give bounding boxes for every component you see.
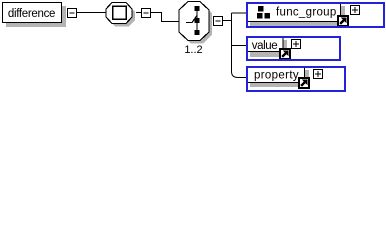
- plus box property: [314, 70, 323, 79]
- compositor octagon 1: [106, 3, 132, 24]
- collapse box B (minus): [142, 9, 151, 18]
- wire from collapse box C to trunk: [223, 20, 232, 22]
- wire from collapse box A to sequence octagon: [77, 12, 107, 14]
- compositor octagon 1 shadow: [109, 6, 135, 27]
- plus box func_group: [351, 6, 360, 15]
- wire from octagon 1 to collapse box B: [136, 12, 142, 14]
- svg-text:value: value: [252, 40, 278, 52]
- element box difference: shadow: [6, 6, 66, 27]
- reference arrow icon func_group: [338, 16, 348, 26]
- inner element box func_group: [247, 3, 341, 22]
- inner shadow value: [250, 40, 287, 57]
- plus box value: [292, 40, 301, 49]
- svg-text:1..2: 1..2: [184, 44, 202, 56]
- frame property (blue): [247, 67, 345, 91]
- frame func_group (blue): [247, 3, 384, 27]
- reference arrow icon value: [280, 49, 290, 59]
- inner shadow property: [250, 70, 309, 87]
- choice icon: lever: [186, 16, 197, 23]
- inner shadow func_group: [250, 6, 345, 26]
- svg-text:difference: difference: [8, 8, 55, 20]
- collapse box A (minus): [68, 9, 77, 18]
- element box difference: [3, 3, 62, 23]
- svg-text:func_group: func_group: [276, 7, 337, 19]
- complex content icon: [258, 6, 264, 12]
- choice octagon shadow: [182, 5, 212, 44]
- reference arrow icon property: [299, 78, 309, 88]
- frame value (blue): [247, 37, 340, 60]
- collapse box C (minus): [214, 17, 223, 26]
- svg-text:property: property: [254, 70, 299, 82]
- choice icon: vertical line: [196, 7, 198, 35]
- wire elbow from collapse box B down to choice octagon: [151, 13, 179, 22]
- square icon inside octagon 1: [113, 6, 127, 19]
- stub wire to value: [232, 45, 247, 47]
- choice icon: squares: [195, 6, 200, 11]
- trunk vertical wire: [232, 13, 247, 78]
- choice octagon: [179, 2, 209, 41]
- stub wire to func_group: [232, 12, 247, 14]
- inner element box value: [247, 37, 284, 52]
- inner element box property: [247, 67, 305, 83]
